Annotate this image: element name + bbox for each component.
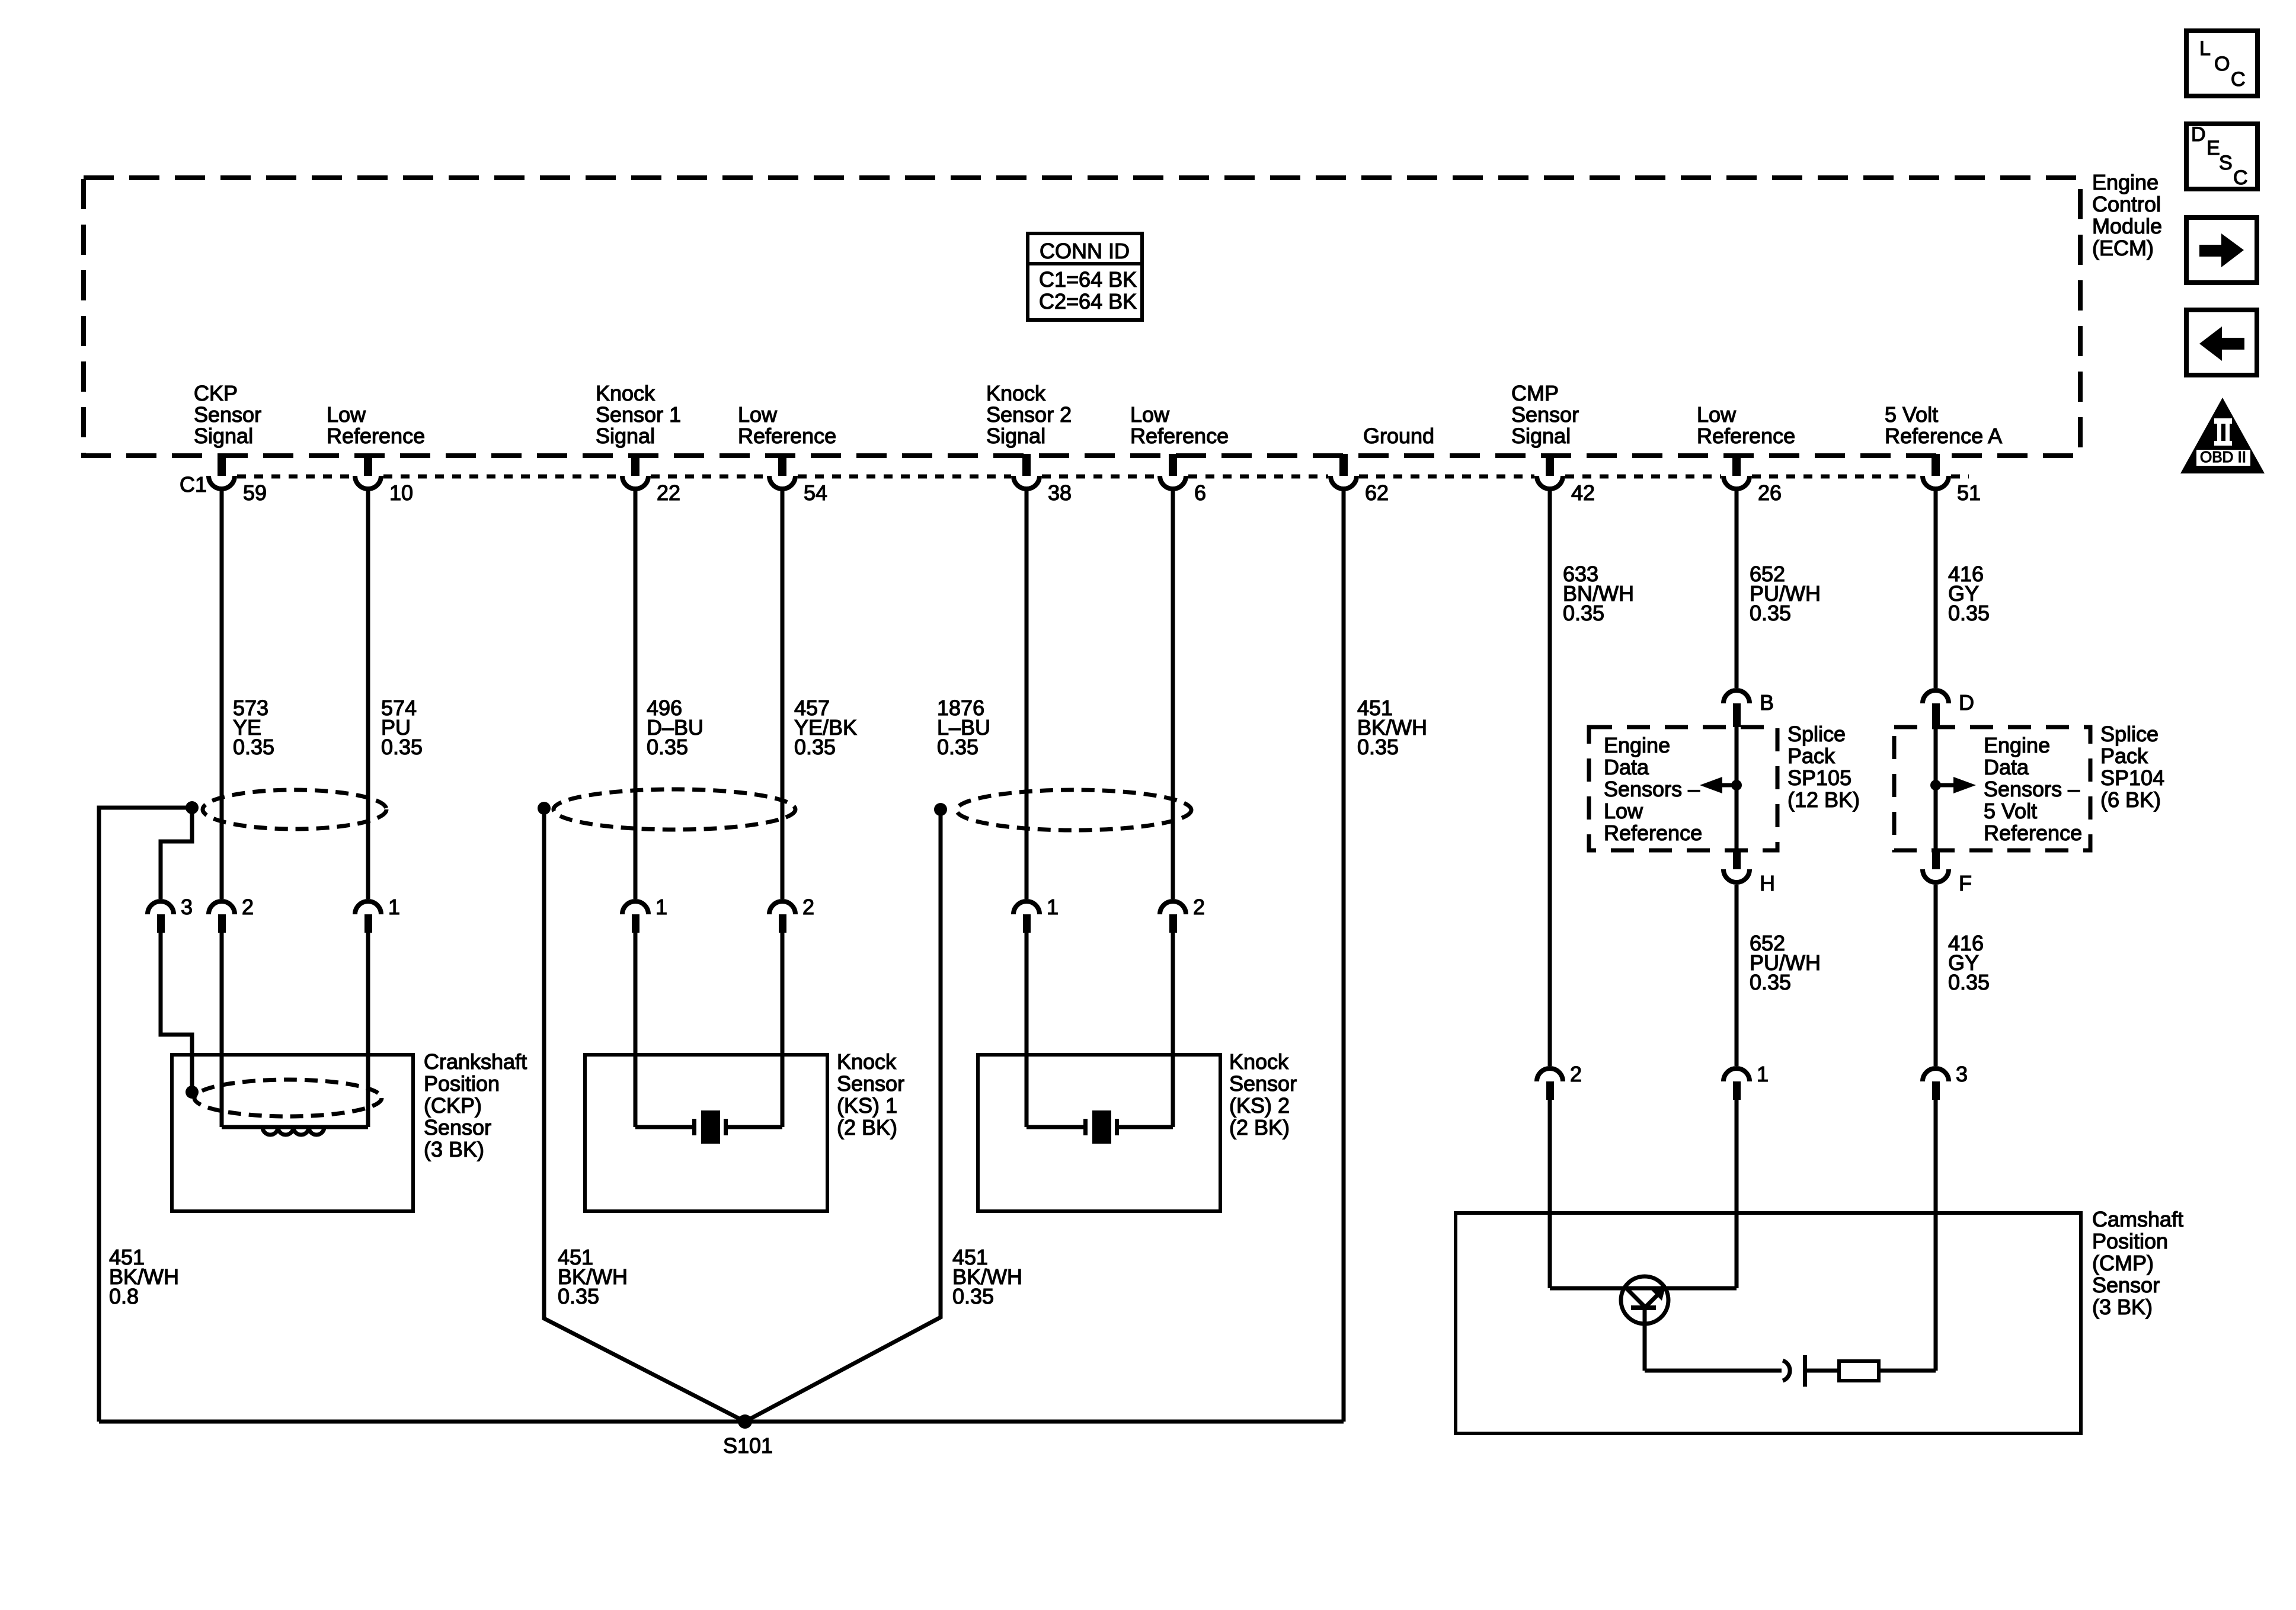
wire KS2 pin 2 lead (1171, 933, 1175, 1127)
svg-text:0.35: 0.35 (381, 735, 423, 759)
wire 416 GY (pin 51 to splice D) (1934, 489, 1938, 688)
svg-text:CMP: CMP (1511, 381, 1559, 405)
svg-text:0.35: 0.35 (1948, 601, 1990, 625)
junction dot CKP shield (186, 801, 199, 814)
svg-text:Module: Module (2092, 214, 2162, 238)
svg-text:Signal: Signal (986, 424, 1045, 448)
svg-text:(CKP): (CKP) (424, 1093, 482, 1118)
wire 633 BN/WH (pin 42 to CMP pin 2) (1548, 489, 1552, 1066)
ECM module dashed box (84, 178, 2080, 456)
wire 652 PU/WH (H to CMP pin 1) (1735, 885, 1739, 1066)
svg-text:Engine: Engine (2092, 170, 2159, 194)
svg-text:Reference: Reference (1984, 821, 2082, 845)
ECM pin 26 connector (1732, 454, 1741, 476)
KS1 pin 1 connector (622, 901, 648, 914)
SP105 internal wire (1735, 727, 1739, 850)
svg-text:Low: Low (1604, 799, 1643, 823)
ground bus wire (99, 1420, 1344, 1424)
svg-text:Reference: Reference (1697, 424, 1795, 448)
SP104 junction dot (1930, 780, 1941, 790)
svg-text:S101: S101 (723, 1433, 773, 1458)
wire CMP pin 3 lead (1934, 1100, 1938, 1371)
svg-text:H: H (1760, 871, 1775, 895)
svg-text:Crankshaft: Crankshaft (424, 1049, 527, 1074)
transistor Q (CMP hall element) (1621, 1276, 1668, 1371)
svg-text:Low: Low (1697, 402, 1737, 427)
junction dot CKP inner shield (186, 1086, 199, 1099)
CKP pin 3 connector (148, 901, 174, 914)
CKP shield ellipse upper (203, 790, 386, 829)
ECM pin 51 connector (1932, 454, 1940, 476)
splice pack SP105 dashed box (1589, 727, 1777, 850)
ECM pin 42 connector (1546, 454, 1554, 476)
KS1 piezo element (635, 1125, 694, 1129)
svg-text:Ground: Ground (1363, 424, 1434, 448)
wire KS1 pin 1 lead (634, 933, 638, 1127)
KS2 shield ellipse (957, 790, 1191, 830)
svg-text:(3 BK): (3 BK) (424, 1137, 484, 1161)
svg-text:Engine: Engine (1984, 733, 2050, 757)
svg-text:Sensor: Sensor (1511, 402, 1579, 427)
splice pack SP104 pin F connector (1932, 850, 1940, 869)
wire 573 YE (pin 59 to CKP pin 2) (220, 489, 224, 899)
splice pack SP104 pin D connector (1923, 690, 1949, 703)
ECM pin 10 connector (364, 454, 372, 476)
CMP pin 2 connector (1537, 1068, 1563, 1081)
svg-text:3: 3 (181, 895, 193, 919)
svg-text:Reference: Reference (1604, 821, 1702, 845)
splice pack SP105 pin H connector (1733, 850, 1741, 869)
svg-text:2: 2 (242, 895, 254, 919)
svg-text:(2 BK): (2 BK) (1229, 1115, 1290, 1140)
KS2 pin 1 connector (1013, 901, 1040, 914)
SP104 internal wire (1934, 727, 1938, 850)
wire 451 BK/WH 0.8 left run (99, 808, 192, 1422)
svg-text:Knock: Knock (986, 381, 1046, 405)
svg-text:(12 BK): (12 BK) (1787, 788, 1860, 812)
svg-text:5 Volt: 5 Volt (1984, 799, 2037, 823)
SP104 arrow to Engine Data Sensors 5 Volt Reference (1936, 783, 1953, 788)
svg-text:(KS) 2: (KS) 2 (1229, 1093, 1290, 1118)
wire CMP pin 2 lead (1548, 1100, 1552, 1288)
wire 452 BK (pin 6 to KS2 pin 2) (1171, 489, 1175, 899)
CMP pin 1 connector (1723, 1068, 1750, 1081)
svg-text:L: L (2199, 37, 2211, 60)
svg-text:O: O (2214, 53, 2230, 75)
svg-text:Reference A: Reference A (1885, 424, 2002, 448)
svg-text:Splice: Splice (2100, 722, 2159, 746)
svg-text:(CMP): (CMP) (2092, 1251, 2154, 1275)
SP105 arrow to Engine Data Sensors Low Reference (1722, 783, 1737, 788)
svg-text:Sensors –: Sensors – (1604, 777, 1700, 801)
svg-text:SP105: SP105 (1787, 766, 1851, 790)
svg-text:Sensor: Sensor (837, 1071, 904, 1096)
svg-text:Data: Data (1984, 755, 2029, 779)
svg-text:Reference: Reference (1130, 424, 1229, 448)
ECM pin 22 connector (631, 454, 639, 476)
svg-text:Data: Data (1604, 755, 1649, 779)
svg-text:0.35: 0.35 (1357, 735, 1399, 759)
svg-text:Position: Position (2092, 1229, 2168, 1253)
KS1 knock sensor box (585, 1055, 827, 1211)
svg-text:0.35: 0.35 (1750, 970, 1791, 994)
svg-text:Sensor: Sensor (1229, 1071, 1297, 1096)
svg-text:Engine: Engine (1604, 733, 1670, 757)
svg-text:(KS) 1: (KS) 1 (837, 1093, 897, 1118)
svg-text:SP104: SP104 (2100, 766, 2164, 790)
svg-text:Camshaft: Camshaft (2092, 1207, 2183, 1231)
svg-text:54: 54 (804, 481, 827, 505)
svg-text:26: 26 (1758, 481, 1782, 505)
CKP sensor box (172, 1055, 413, 1211)
wire CMP pin 1 lead (1735, 1100, 1739, 1288)
svg-text:C2=64 BK: C2=64 BK (1039, 289, 1137, 313)
CMP internal top wire (1550, 1286, 1737, 1291)
svg-text:42: 42 (1571, 481, 1595, 505)
LOC icon box (2186, 31, 2257, 96)
CKP pin 1 connector (355, 901, 381, 914)
svg-text:51: 51 (1957, 481, 1981, 505)
CKP shield ellipse inner (194, 1080, 382, 1116)
wire 496 D-BU (pin 22 to KS1 pin 1) (634, 489, 638, 899)
svg-text:(6 BK): (6 BK) (2100, 788, 2161, 812)
svg-text:B: B (1760, 690, 1774, 715)
KS2 pin 2 connector (1160, 901, 1186, 914)
CMP pickup gap symbol (1783, 1361, 1790, 1381)
svg-text:Knock: Knock (837, 1049, 897, 1074)
wire 574 PU (pin 10 to CKP pin 1) (366, 489, 370, 899)
splice pack SP104 dashed box (1894, 727, 2090, 850)
svg-text:0.35: 0.35 (952, 1284, 994, 1308)
CKP pin 2 connector (209, 901, 235, 914)
CKP coil winding (222, 1125, 368, 1129)
svg-text:1: 1 (1047, 895, 1059, 919)
svg-text:0.35: 0.35 (233, 735, 274, 759)
resistor R (CMP internal) (1839, 1361, 1879, 1381)
svg-text:CONN ID: CONN ID (1040, 239, 1130, 263)
svg-text:E: E (2207, 137, 2220, 159)
KS1 pin 2 connector (769, 901, 795, 914)
svg-text:OBD II: OBD II (2200, 448, 2246, 466)
svg-text:C1: C1 (180, 472, 207, 497)
svg-text:0.35: 0.35 (558, 1284, 599, 1308)
svg-text:0.35: 0.35 (647, 735, 688, 759)
svg-text:S: S (2219, 152, 2233, 174)
splice S101 (738, 1414, 752, 1429)
svg-text:1: 1 (655, 895, 667, 919)
DESC icon box (2186, 123, 2257, 189)
svg-text:10: 10 (389, 481, 413, 505)
svg-text:0.35: 0.35 (1750, 601, 1791, 625)
wire 1876 L-BU (pin 38 to KS2 pin 1) (1025, 489, 1029, 899)
svg-text:Reference: Reference (327, 424, 425, 448)
svg-text:Pack: Pack (1787, 744, 1835, 768)
svg-text:Low: Low (738, 402, 778, 427)
wire 451 BK/WH KS1 drain (544, 808, 745, 1422)
svg-text:2: 2 (802, 895, 814, 919)
svg-text:59: 59 (243, 481, 267, 505)
splice pack SP105 pin B connector (1723, 690, 1750, 703)
svg-text:F: F (1959, 871, 1972, 895)
svg-text:Signal: Signal (596, 424, 655, 448)
svg-text:1: 1 (388, 895, 400, 919)
svg-text:0.35: 0.35 (1948, 970, 1990, 994)
wire 652 PU/WH (pin 26 to splice B) (1735, 489, 1739, 688)
svg-text:2: 2 (1570, 1062, 1582, 1086)
wire 416 GY (F to CMP pin 3) (1934, 885, 1938, 1066)
OBD II icon (2180, 398, 2265, 473)
svg-text:Signal: Signal (194, 424, 253, 448)
svg-text:Sensor 1: Sensor 1 (596, 402, 681, 427)
svg-text:D: D (1959, 690, 1974, 715)
CMP internal bottom wire (1645, 1369, 1782, 1373)
wire shield drain jog to CKP pin 3 (161, 808, 192, 899)
svg-text:(ECM): (ECM) (2092, 236, 2154, 260)
svg-text:C1=64 BK: C1=64 BK (1039, 267, 1137, 292)
wire 457 YE/BK (pin 54 to KS1 pin 2) (781, 489, 785, 899)
svg-text:Splice: Splice (1787, 722, 1846, 746)
svg-text:Sensor: Sensor (194, 402, 261, 427)
wire KS2 pin 1 lead (1025, 933, 1029, 1127)
svg-text:Sensor: Sensor (2092, 1273, 2160, 1297)
wire KS1 pin 2 lead (781, 933, 785, 1127)
CONN ID table (1028, 233, 1142, 320)
svg-text:2: 2 (1193, 895, 1205, 919)
svg-text:Pack: Pack (2100, 744, 2148, 768)
ECM pin 6 connector (1169, 454, 1177, 476)
KS2 knock sensor box (978, 1055, 1220, 1211)
svg-text:Low: Low (1130, 402, 1170, 427)
svg-text:(3 BK): (3 BK) (2092, 1295, 2153, 1319)
wire CKP pin 2 lead (220, 933, 224, 1127)
wire CKP pin 3 lead (161, 933, 192, 1091)
right arrow icon box (2186, 217, 2257, 283)
ECM pin 54 connector (778, 454, 786, 476)
CMP pin 3 connector (1923, 1068, 1949, 1081)
svg-text:0.35: 0.35 (794, 735, 836, 759)
wire 451 BK/WH ground (pin 62 to S101 bus) (1342, 489, 1346, 1422)
svg-text:CKP: CKP (194, 381, 238, 405)
ECM pin 38 connector (1022, 454, 1031, 476)
svg-text:38: 38 (1048, 481, 1072, 505)
svg-text:Signal: Signal (1511, 424, 1571, 448)
svg-text:Sensor 2: Sensor 2 (986, 402, 1072, 427)
CMP sensor box (1456, 1213, 2081, 1433)
svg-text:Control: Control (2092, 192, 2161, 216)
KS2 piezo element (1027, 1125, 1085, 1129)
svg-text:0.8: 0.8 (109, 1284, 139, 1308)
ECM pin 62 connector (1339, 454, 1348, 476)
svg-text:D: D (2191, 123, 2206, 146)
svg-text:62: 62 (1365, 481, 1389, 505)
KS1 shield ellipse (554, 789, 795, 830)
svg-text:C: C (2231, 68, 2246, 91)
svg-text:3: 3 (1956, 1062, 1968, 1086)
junction dot KS2 shield (934, 803, 947, 816)
svg-text:1: 1 (1757, 1062, 1769, 1086)
junction dot KS1 shield (538, 802, 551, 815)
left arrow icon box (2186, 310, 2257, 375)
SP105 junction dot (1731, 780, 1742, 790)
svg-text:Reference: Reference (738, 424, 836, 448)
wire 451 BK/WH KS2 drain (745, 809, 941, 1422)
svg-text:0.35: 0.35 (937, 735, 978, 759)
svg-text:Sensor: Sensor (424, 1115, 491, 1140)
svg-text:22: 22 (657, 481, 680, 505)
connector C1 dotted line (237, 475, 1969, 479)
svg-text:(2 BK): (2 BK) (837, 1115, 897, 1140)
svg-text:5 Volt: 5 Volt (1885, 402, 1938, 427)
svg-text:Knock: Knock (596, 381, 655, 405)
svg-text:Knock: Knock (1229, 1049, 1289, 1074)
svg-text:6: 6 (1194, 481, 1206, 505)
ECM pin 59 connector (218, 454, 226, 476)
svg-text:0.35: 0.35 (1563, 601, 1604, 625)
svg-text:C: C (2233, 167, 2248, 189)
wire CKP pin 1 lead (366, 933, 370, 1127)
svg-text:Position: Position (424, 1071, 500, 1096)
svg-text:Low: Low (327, 402, 366, 427)
svg-text:Sensors –: Sensors – (1984, 777, 2080, 801)
